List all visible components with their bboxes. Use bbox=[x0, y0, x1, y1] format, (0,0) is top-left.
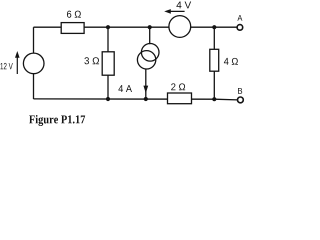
node dot bottom of 4A branch bbox=[144, 97, 148, 101]
wire top rail bbox=[34, 26, 238, 28]
current source 4A lower circle bbox=[137, 51, 155, 69]
wire 4A source top lead bbox=[149, 27, 151, 44]
label 4 ohm bbox=[224, 58, 238, 65]
wire 3-ohm branch vertical bbox=[107, 27, 109, 99]
current source 4A upper circle bbox=[141, 44, 159, 62]
resistor R 2ohm box bbox=[168, 93, 192, 104]
12V polarity arrow bbox=[16, 57, 18, 75]
wire 4-ohm branch vertical bbox=[213, 27, 215, 99]
4A current arrow (points down) bbox=[143, 86, 148, 94]
voltage source 4V circle bbox=[169, 16, 191, 38]
node dot top of 4A branch bbox=[148, 25, 152, 29]
resistor R 6ohm box bbox=[61, 23, 84, 34]
voltage source 12V circle bbox=[23, 53, 44, 74]
label 6 ohm bbox=[67, 11, 81, 18]
caption Figure P1.17 bbox=[29, 115, 85, 126]
wire left branch vertical bbox=[33, 27, 35, 99]
4V polarity arrow (points left) bbox=[169, 10, 185, 12]
label 4 V bbox=[176, 2, 191, 9]
label 4 A bbox=[118, 85, 132, 92]
node dot bottom of 4-ohm branch bbox=[212, 97, 216, 101]
label 2 ohm bbox=[171, 83, 185, 90]
resistor R 4ohm box bbox=[210, 49, 219, 71]
wire 4A source bottom lead bbox=[145, 69, 147, 99]
terminal A open circle bbox=[237, 25, 243, 31]
node dot bottom of 3-ohm branch bbox=[106, 97, 110, 101]
label 12 V bbox=[0, 63, 12, 69]
label terminal A bbox=[237, 15, 242, 21]
node dot top of 4-ohm branch bbox=[212, 25, 216, 29]
label terminal B bbox=[238, 88, 242, 94]
label 3 ohm bbox=[84, 57, 99, 64]
terminal B open circle bbox=[238, 97, 244, 103]
wire bottom rail bbox=[34, 99, 238, 100]
resistor R 3ohm box bbox=[102, 52, 114, 75]
node dot top of 3-ohm branch bbox=[106, 25, 110, 29]
